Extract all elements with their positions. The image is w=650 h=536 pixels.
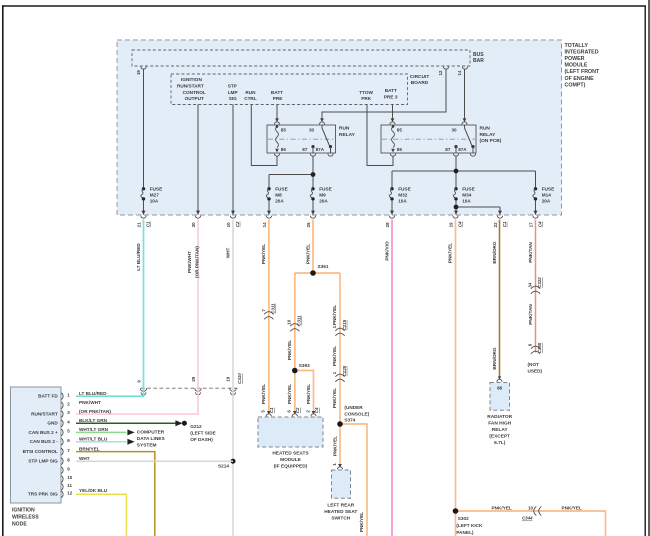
svg-text:RELAY: RELAY	[339, 132, 356, 138]
svg-text:10A: 10A	[398, 199, 407, 204]
connector C311 pin 7 in-line	[261, 303, 276, 319]
svg-text:PANEL): PANEL)	[456, 530, 474, 535]
pin 30 (TIPM)	[191, 216, 201, 228]
label (NOT USED)	[528, 362, 543, 373]
svg-text:BRN/ORG: BRN/ORG	[492, 241, 497, 263]
wire BATT PRE to relay U2 pin 85	[276, 105, 278, 122]
node STP LMP SIG	[228, 83, 238, 101]
wire PNK/YEL from TIPM pin 26 to splice S361	[312, 220, 314, 271]
svg-text:HEATED SEAT: HEATED SEAT	[324, 509, 357, 515]
connector C322 pin 34 in-line	[527, 277, 542, 294]
pin 87A of U2	[328, 154, 333, 157]
svg-text:BRN/ORG: BRN/ORG	[492, 347, 497, 369]
svg-text:M8: M8	[275, 192, 282, 197]
svg-text:10A: 10A	[462, 199, 471, 204]
pin 85 of U3	[390, 122, 395, 125]
arrow to computer data lines (pin 6)	[127, 439, 134, 445]
svg-text:M32: M32	[398, 192, 408, 197]
fuse M9 20A	[310, 186, 331, 203]
node BATT PRE	[271, 90, 283, 101]
svg-text:85: 85	[397, 128, 403, 133]
svg-text:26: 26	[306, 222, 311, 227]
svg-text:M27: M27	[150, 192, 160, 197]
junction at U2 pin 87 branch	[311, 172, 316, 177]
svg-text:28: 28	[385, 222, 390, 227]
label BUS BAR	[473, 52, 484, 64]
svg-text:86: 86	[497, 385, 503, 390]
pin 30 of U3	[462, 122, 467, 125]
wire WHT from TIPM pin 10 to node pin 8 and splice S214	[76, 220, 233, 536]
svg-text:FAN HIGH: FAN HIGH	[488, 420, 511, 426]
pin 1 (left rear heated seat switch)	[332, 463, 342, 470]
svg-text:PNK/TAN: PNK/TAN	[528, 304, 533, 325]
arrow to computer data lines (pin 5)	[127, 429, 134, 435]
svg-text:SWITCH: SWITCH	[331, 516, 350, 522]
svg-text:C215: C215	[342, 319, 347, 330]
wire bus bar pin 19 to fuse M27	[143, 69, 145, 187]
fuse M32 10A	[389, 186, 410, 203]
svg-text:PNK/WHT: PNK/WHT	[187, 251, 192, 273]
pin 7 (ignition wireless node)	[61, 448, 70, 455]
svg-text:BLK/LT GRN: BLK/LT GRN	[79, 418, 108, 423]
svg-text:87A: 87A	[316, 147, 325, 152]
svg-text:PNK/YEL: PNK/YEL	[332, 388, 337, 408]
svg-text:87A: 87A	[458, 147, 467, 152]
wire BRN/ORG from TIPM pin 22 to radiator fan high relay	[499, 220, 501, 377]
svg-text:M34: M34	[462, 192, 472, 197]
svg-text:PRE: PRE	[273, 96, 283, 101]
svg-text:OUTPUT: OUTPUT	[185, 96, 204, 101]
wire S393 to heated seats module pin 2	[295, 371, 314, 411]
svg-text:85: 85	[281, 128, 287, 133]
wire WHT/LT GRN from node pin 5 to computer data lines	[76, 431, 127, 433]
pin 30 of U2	[319, 122, 324, 125]
connector C310 in-line	[136, 373, 242, 395]
splice S374 (UNDER CONSOLE)	[337, 421, 343, 427]
wire RUN CTRL to relay U2 pin 86	[251, 105, 277, 166]
svg-text:12: 12	[438, 70, 443, 75]
svg-text:S374: S374	[344, 418, 355, 423]
svg-text:RUN: RUN	[480, 126, 491, 132]
fuse M14 20A	[533, 186, 554, 203]
svg-text:(OR PNK/TAN): (OR PNK/TAN)	[194, 246, 199, 278]
svg-text:USED): USED)	[528, 369, 543, 374]
splice S393	[292, 368, 298, 374]
connector C344 pin 10 in-line	[522, 505, 541, 520]
wire PNK/YEL from TIPM pin 14 to heated seats module pin 5	[268, 220, 270, 411]
svg-text:RUN/START: RUN/START	[177, 83, 204, 88]
svg-text:IGNITION: IGNITION	[181, 77, 202, 82]
svg-text:C4: C4	[537, 221, 542, 227]
svg-text:(IF EQUIPPED): (IF EQUIPPED)	[274, 464, 308, 470]
svg-text:FUSE: FUSE	[542, 186, 555, 191]
svg-text:SIG: SIG	[229, 96, 237, 101]
svg-text:LT BLU/RED: LT BLU/RED	[136, 243, 141, 271]
svg-text:PNK/YEL: PNK/YEL	[261, 384, 266, 404]
svg-text:FUSE: FUSE	[150, 186, 163, 191]
wire PNK/VIO from TIPM pin 28 down off-page	[391, 220, 393, 536]
wire STP LMP SIG to TIPM pin 10	[232, 105, 234, 215]
svg-text:C2: C2	[295, 407, 300, 413]
svg-text:S214: S214	[218, 464, 229, 469]
pin 14 (bus bar)	[457, 67, 467, 76]
svg-text:BTSI CONTROL: BTSI CONTROL	[23, 449, 58, 454]
svg-text:10: 10	[528, 505, 533, 510]
svg-text:34: 34	[527, 282, 532, 287]
pin 4 (ignition wireless node)	[61, 419, 70, 426]
svg-text:COMPUTER: COMPUTER	[137, 430, 165, 436]
svg-text:TOTALLY: TOTALLY	[565, 43, 589, 49]
wire BLK/LT GRN from node pin 4 to ground G212	[76, 422, 177, 424]
svg-text:POWER: POWER	[565, 56, 585, 62]
svg-text:NODE: NODE	[12, 521, 27, 527]
connector C215 pin 1 in-line	[332, 319, 347, 336]
module ignition wireless node	[11, 387, 62, 503]
relay U3 RUN RELAY (ON PCB)	[381, 125, 476, 153]
svg-text:PNK/VIO: PNK/VIO	[384, 241, 389, 261]
svg-text:87: 87	[302, 147, 308, 152]
pin 26 (TIPM)	[306, 216, 316, 228]
svg-text:C310: C310	[237, 373, 242, 384]
svg-text:(EXCEPT: (EXCEPT	[489, 434, 510, 440]
junction at U3 pin 87 branch	[454, 169, 459, 174]
svg-text:PNK/TAN: PNK/TAN	[528, 242, 533, 263]
pin 8 (ignition wireless node)	[61, 457, 70, 464]
svg-text:M14: M14	[542, 192, 552, 197]
svg-text:PNK/YEL: PNK/YEL	[306, 384, 311, 404]
svg-text:PNK/YEL: PNK/YEL	[261, 244, 266, 264]
svg-text:FUSE: FUSE	[462, 186, 475, 191]
svg-text:12: 12	[67, 491, 73, 496]
pin 19 (bus bar)	[136, 67, 146, 75]
node TTOW PRK	[359, 90, 373, 101]
svg-text:HEATED SEATS: HEATED SEATS	[272, 451, 309, 457]
label G212 (LEFT SIDE OF DASH)	[190, 424, 216, 442]
svg-text:SYSTEM: SYSTEM	[137, 442, 157, 448]
pin 14 (TIPM)	[262, 216, 272, 228]
pin 86 of U2	[274, 154, 279, 157]
fuse M27 10A	[141, 186, 162, 203]
module U1 TIPM (Totally Integrated Power Module) outline	[117, 40, 562, 215]
svg-text:S393: S393	[299, 363, 310, 368]
splice S302 (LEFT KICK PANEL)	[453, 508, 459, 514]
svg-text:MODULE: MODULE	[280, 457, 302, 463]
svg-text:COMPT): COMPT)	[565, 82, 586, 88]
wire fuse M32 to TIPM pin 28	[391, 201, 393, 215]
svg-text:CTRL: CTRL	[244, 96, 257, 101]
pin 17 C4 (TIPM)	[528, 216, 542, 228]
svg-text:GND: GND	[47, 421, 58, 426]
relay U2 RUN RELAY	[267, 125, 336, 153]
label HEATED SEATS MODULE (IF EQUIPPED)	[272, 451, 309, 470]
svg-text:CAN BUS 2 +: CAN BUS 2 +	[28, 430, 58, 435]
label RADIATOR FAN HIGH RELAY (EXCEPT 6.7L)	[487, 414, 512, 446]
wire WHT from node pin 8 (to splice S214)	[76, 460, 233, 462]
wire PNK/YEL from S374 down off-page	[340, 424, 367, 536]
wire U2 pin 87 to fuses M8 and M9	[269, 156, 313, 187]
svg-text:30: 30	[309, 128, 315, 133]
svg-text:30: 30	[191, 222, 196, 227]
svg-text:BATT FD: BATT FD	[38, 394, 58, 399]
svg-text:20A: 20A	[542, 199, 551, 204]
svg-text:86: 86	[397, 147, 403, 152]
svg-text:G212: G212	[190, 424, 202, 429]
connector C355 pin 6 in-line	[527, 342, 542, 354]
svg-text:C1: C1	[269, 407, 274, 413]
svg-text:C4: C4	[457, 221, 462, 227]
wire fuse M9 to TIPM pin 26	[312, 201, 314, 215]
svg-text:11: 11	[67, 483, 72, 488]
svg-text:TRS PRK SIG: TRS PRK SIG	[28, 492, 58, 497]
svg-text:BOARD: BOARD	[411, 80, 429, 86]
pin 21 C1 (TIPM)	[136, 216, 150, 228]
pin 5 (ignition wireless node)	[61, 429, 70, 436]
svg-text:RADIATOR: RADIATOR	[487, 414, 512, 420]
label TIPM name	[565, 43, 600, 89]
svg-text:C1: C1	[145, 221, 150, 227]
label COMPUTER DATA LINES SYSTEM	[137, 430, 166, 449]
node BATT PRE 3	[384, 88, 398, 99]
wire fuse M14 to TIPM pin 17	[535, 201, 537, 215]
svg-text:86: 86	[281, 147, 287, 152]
wire BATT PRE 3 to relay U3 pin 85	[392, 105, 394, 122]
svg-text:STP: STP	[228, 83, 237, 88]
wire PNK/WHT from TIPM pin 30 to node pin 3	[76, 220, 198, 415]
wire fuse M8 to TIPM pin 14	[268, 201, 270, 215]
label CIRCUIT BOARD	[410, 74, 430, 86]
bus bar	[132, 50, 470, 66]
svg-text:RUN/START: RUN/START	[31, 411, 58, 416]
svg-text:C311: C311	[297, 315, 302, 326]
svg-text:IGNITION: IGNITION	[12, 508, 35, 514]
wire bus bar pin 14 to relay U3 pin 30	[464, 69, 466, 122]
svg-text:C2: C2	[235, 221, 240, 227]
svg-text:C1: C1	[502, 221, 507, 227]
pin 6 C2 (heated seats module)	[287, 407, 301, 416]
svg-text:PNK/YEL: PNK/YEL	[332, 346, 337, 366]
svg-text:BATT: BATT	[271, 90, 283, 95]
svg-text:MODULE: MODULE	[565, 63, 588, 69]
svg-text:(NOT: (NOT	[528, 362, 540, 367]
svg-text:C355: C355	[537, 342, 542, 353]
svg-text:PNK/YEL: PNK/YEL	[287, 340, 292, 360]
svg-text:YEL/DK BLU: YEL/DK BLU	[79, 488, 108, 493]
junction below fuse M34	[454, 205, 459, 210]
svg-text:PRK: PRK	[361, 96, 372, 101]
fuse M34 10A	[453, 186, 474, 203]
relay radiator fan high relay	[490, 383, 510, 411]
svg-text:PNK/YEL: PNK/YEL	[448, 243, 453, 263]
svg-text:TTOW: TTOW	[359, 90, 373, 95]
pin 87A of U3	[470, 154, 475, 157]
svg-text:WHT: WHT	[79, 456, 90, 461]
connector C311 pin 10 in-line	[287, 315, 302, 331]
svg-text:PNK/YEL: PNK/YEL	[332, 436, 337, 456]
svg-text:CAN BUS 2 -: CAN BUS 2 -	[30, 439, 59, 444]
svg-text:29: 29	[191, 376, 196, 381]
svg-text:19: 19	[136, 70, 141, 75]
ground G212	[175, 420, 182, 426]
svg-text:M9: M9	[319, 192, 326, 197]
label IGNITION WIRELESS NODE	[12, 508, 39, 528]
svg-text:C225: C225	[342, 365, 347, 376]
svg-text:PNK/YEL: PNK/YEL	[492, 505, 512, 510]
svg-text:FUSE: FUSE	[398, 186, 411, 191]
wire IGNITION RUN/START CONTROL OUTPUT to TIPM pin 30	[197, 105, 199, 215]
pin 12 (ignition wireless node)	[61, 491, 73, 498]
node RUN CTRL	[244, 90, 257, 101]
svg-text:C4: C4	[314, 407, 319, 413]
svg-text:FUSE: FUSE	[275, 186, 288, 191]
svg-text:PNK/YEL: PNK/YEL	[359, 512, 364, 532]
svg-text:PRE 3: PRE 3	[384, 94, 398, 99]
pin 2 (ignition wireless node)	[61, 402, 70, 409]
pin 87 of U2	[310, 154, 315, 157]
svg-text:LMP: LMP	[228, 90, 238, 95]
svg-text:BRN/YEL: BRN/YEL	[79, 446, 100, 451]
node IGNITION RUN/START CONTROL OUTPUT	[177, 77, 206, 101]
svg-text:(ON PCB): (ON PCB)	[480, 138, 502, 144]
svg-text:RELAY: RELAY	[480, 132, 497, 138]
pin 87 of U3	[453, 154, 458, 157]
connector C225 pin 1 in-line	[332, 365, 347, 382]
svg-text:BATT: BATT	[385, 88, 397, 93]
svg-text:21: 21	[136, 222, 141, 227]
svg-text:10: 10	[287, 319, 292, 324]
svg-text:14: 14	[457, 70, 462, 75]
wire PNK/YEL from S302 right and down off-page	[456, 511, 606, 536]
svg-text:17: 17	[528, 222, 533, 227]
wire U3 pin 87 to fuses M32, M34 and M14	[392, 156, 536, 187]
svg-text:WHT/LT BLU: WHT/LT BLU	[79, 437, 108, 442]
svg-text:RUN: RUN	[245, 90, 256, 95]
svg-text:C311: C311	[271, 303, 276, 314]
svg-text:10: 10	[67, 475, 73, 480]
pin 85 of U2	[274, 122, 279, 125]
svg-text:30: 30	[452, 128, 458, 133]
svg-text:6.7L): 6.7L)	[494, 440, 506, 446]
pin 2 C4 (heated seats module)	[305, 407, 319, 416]
wire LT BLU/RED from TIPM pin 21 to node pin 1	[76, 220, 144, 397]
wire PNK/TAN from TIPM pin 17 to connector C355 (not used)	[535, 220, 537, 353]
svg-text:20A: 20A	[319, 199, 328, 204]
svg-text:20A: 20A	[275, 199, 284, 204]
svg-text:(UNDER: (UNDER	[344, 405, 363, 410]
svg-text:22: 22	[493, 222, 498, 227]
pin 86 (radiator fan high relay)	[497, 379, 502, 382]
svg-text:OF ENGINE: OF ENGINE	[565, 76, 595, 82]
svg-text:PNK/WHT: PNK/WHT	[79, 400, 101, 405]
svg-text:19: 19	[225, 376, 230, 381]
svg-text:PNK/YEL: PNK/YEL	[287, 384, 292, 404]
svg-text:14: 14	[262, 222, 267, 227]
wire PNK/YEL from S361 to splice S374	[339, 273, 341, 424]
pin 5 C1 (heated seats module)	[261, 407, 275, 416]
svg-text:RUN: RUN	[339, 126, 350, 132]
pin 1 (ignition wireless node)	[61, 392, 70, 399]
svg-text:RELAY: RELAY	[492, 427, 509, 433]
svg-text:OF DASH): OF DASH)	[190, 437, 213, 442]
svg-text:LT BLU/RED: LT BLU/RED	[79, 391, 107, 396]
svg-text:C344: C344	[522, 516, 533, 521]
pin 10 C2 (TIPM)	[226, 216, 240, 228]
wire S374 to left rear heated seat switch pin 1	[339, 424, 341, 464]
wire bus bar pin 12 to relay U2 pin 30	[322, 69, 446, 122]
svg-text:87: 87	[445, 147, 451, 152]
wire TTOW PRK to relay U3 pin 86	[367, 105, 393, 166]
svg-text:STP LMP SIG: STP LMP SIG	[28, 459, 58, 464]
wire fuse M27 to TIPM pin 21	[143, 201, 145, 215]
splice S214	[231, 459, 236, 464]
pin 19 C4 (TIPM)	[448, 216, 462, 228]
svg-text:10A: 10A	[150, 199, 159, 204]
svg-text:WHT/LT GRN: WHT/LT GRN	[79, 427, 109, 432]
svg-text:BAR: BAR	[473, 58, 484, 64]
svg-text:(LEFT SIDE: (LEFT SIDE	[190, 431, 216, 436]
svg-text:CONSOLE): CONSOLE)	[344, 411, 369, 416]
pin 9 (ignition wireless node)	[61, 467, 70, 474]
svg-text:LEFT REAR: LEFT REAR	[327, 503, 354, 509]
svg-text:10: 10	[226, 222, 231, 227]
wire BRN/YEL from node pin 7 down off-page	[76, 452, 155, 536]
svg-text:19: 19	[448, 222, 453, 227]
svg-text:INTEGRATED: INTEGRATED	[565, 49, 599, 55]
svg-text:CONTROL: CONTROL	[183, 90, 206, 95]
label PNK/WHT (OR PNK/TAN) (vertical)	[187, 246, 199, 278]
fuse M8 20A	[266, 186, 287, 203]
svg-text:WHT: WHT	[226, 248, 231, 259]
svg-text:S361: S361	[318, 264, 329, 269]
svg-text:(OR PNK/TAN): (OR PNK/TAN)	[79, 409, 111, 414]
svg-text:(LEFT FRONT: (LEFT FRONT	[565, 69, 600, 75]
wire splice S361 branches	[295, 272, 340, 274]
svg-text:WIRELESS: WIRELESS	[12, 515, 39, 521]
svg-text:C322: C322	[537, 277, 542, 288]
wire YEL/DK BLU from node pin 12 down off-page	[76, 494, 126, 536]
svg-text:DATA LINES: DATA LINES	[137, 436, 166, 442]
pin 28 (TIPM)	[385, 216, 395, 228]
label LEFT REAR HEATED SEAT SWITCH	[324, 503, 357, 522]
module heated seats module	[258, 417, 323, 447]
module left rear heated seat switch	[332, 470, 351, 498]
svg-text:FUSE: FUSE	[319, 186, 332, 191]
pin 3 (ignition wireless node)	[61, 410, 70, 417]
svg-text:CIRCUIT: CIRCUIT	[410, 74, 430, 80]
svg-text:S302: S302	[458, 516, 469, 521]
svg-text:(LEFT KICK: (LEFT KICK	[456, 523, 483, 528]
pin 86 of U3	[390, 154, 395, 157]
svg-text:PNK/YEL: PNK/YEL	[332, 305, 337, 325]
wire PNK/YEL from TIPM pin 19 to splice S302	[455, 220, 457, 536]
svg-text:PNK/YEL: PNK/YEL	[305, 244, 310, 264]
circuit board	[171, 74, 408, 105]
pin 12 (bus bar)	[438, 67, 448, 76]
svg-text:PNK/YEL: PNK/YEL	[562, 505, 582, 510]
wire S393 to heated seats module pin 6	[294, 371, 296, 411]
wire fuse M34 to TIPM pin 19 and pin 22	[456, 201, 500, 215]
label RUN RELAY ON PCB (U3)	[480, 126, 502, 145]
splice S361	[310, 270, 316, 276]
label RUN RELAY (U2)	[339, 126, 356, 138]
wire WHT/LT BLU from node pin 6 to computer data lines	[76, 441, 127, 443]
wire PNK/YEL from S361 to splice S393	[294, 273, 296, 371]
pin 10 (ignition wireless node)	[61, 475, 73, 482]
pin 22 C1 (TIPM)	[493, 216, 507, 228]
pin 11 (ignition wireless node)	[61, 483, 72, 490]
pin 6 (ignition wireless node)	[61, 438, 70, 445]
